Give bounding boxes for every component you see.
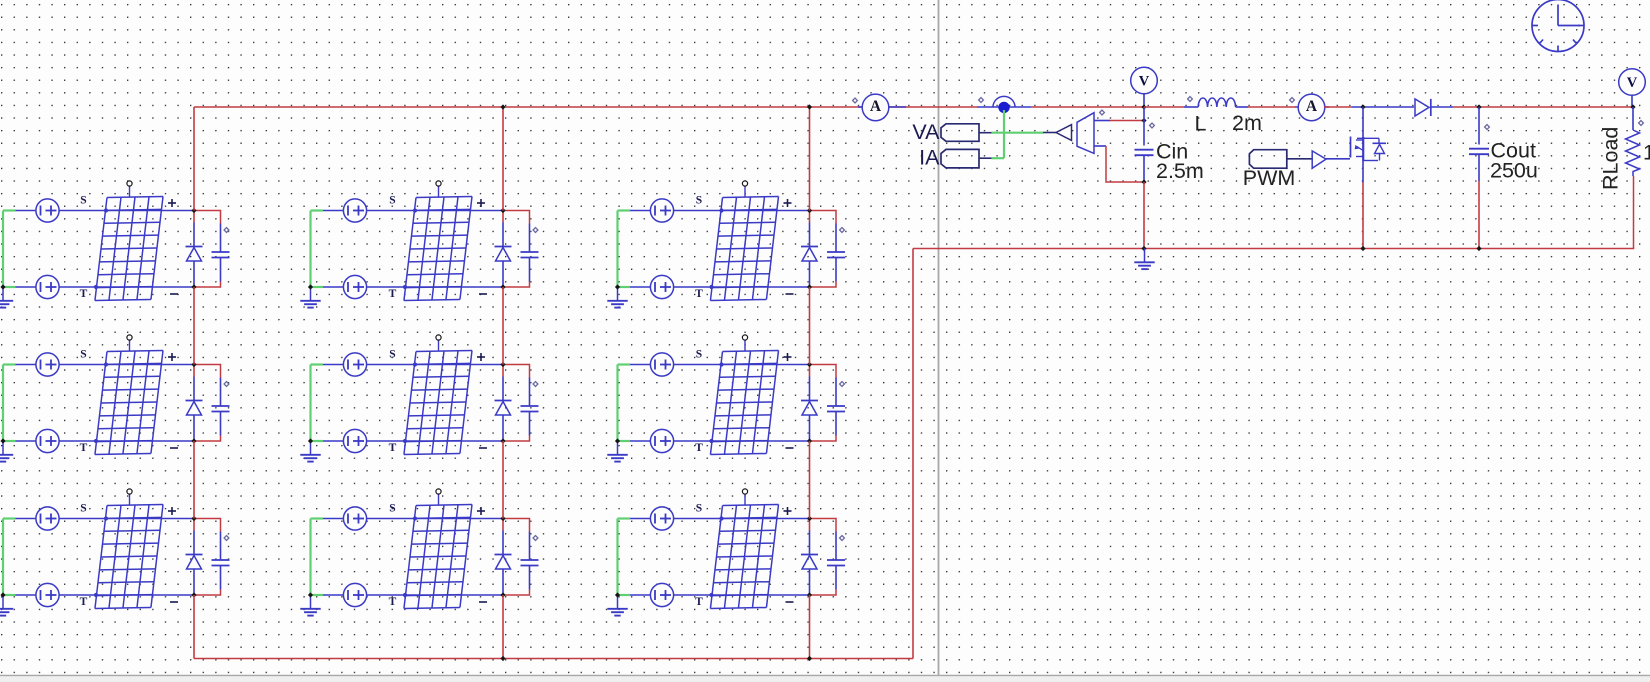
- marker diamond near inductor: [1188, 97, 1193, 102]
- svg-text:IA: IA: [919, 145, 940, 169]
- svg-text:L: L: [1195, 112, 1207, 136]
- wire node to Cin junction: [1031, 106, 1144, 108]
- marker diamond near controller: [1100, 110, 1105, 115]
- wire S input module 11: [16, 210, 195, 212]
- wire T input module 11: [16, 286, 195, 288]
- PV panel module 31: [95, 504, 163, 608]
- svg-text:T: T: [80, 596, 88, 608]
- current source IT module 11: [36, 275, 59, 298]
- label minus module 31: [170, 601, 178, 603]
- junction module 12 plus: [500, 208, 505, 213]
- marker diamond near A1: [853, 98, 858, 103]
- ammeter A1: [858, 94, 906, 121]
- svg-text:T: T: [80, 288, 88, 300]
- wire green left rail module 33: [618, 519, 631, 596]
- marker diamond module 21: [224, 382, 229, 387]
- junction module 33 plus: [807, 516, 812, 521]
- junction module 22 ground: [308, 438, 313, 443]
- marker diamond module 22: [533, 382, 538, 387]
- wire green left rail module 11: [3, 211, 16, 288]
- pin node module 32 T: [403, 593, 407, 597]
- wire bus column 1 segment 4: [193, 595, 195, 659]
- junction top rail column 2: [500, 104, 505, 109]
- terminal node module 21 top: [127, 335, 132, 351]
- current source IS module 11: [36, 199, 59, 222]
- wire RLoad to rail: [1633, 176, 1635, 249]
- svg-text:S: S: [80, 503, 86, 515]
- terminal node module 13 top: [742, 181, 747, 197]
- marker diamond module 13: [840, 228, 845, 233]
- pin node module 23 S: [719, 362, 723, 366]
- svg-text:V: V: [1627, 75, 1638, 91]
- capacitor module 31: [212, 532, 230, 590]
- svg-text:S: S: [696, 503, 702, 515]
- svg-text:T: T: [389, 288, 397, 300]
- label minus module 22: [479, 447, 487, 449]
- wire diode to output node: [1453, 106, 1633, 108]
- junction module 23 minus: [807, 438, 812, 443]
- marker diamond module 31: [224, 536, 229, 541]
- current source IT module 32: [343, 583, 366, 606]
- wire T input module 21: [16, 440, 195, 442]
- wire T input module 32: [323, 594, 503, 596]
- label minus module 32: [479, 601, 487, 603]
- label plus module 32: [477, 507, 485, 515]
- terminal node module 33 top: [742, 489, 747, 505]
- wire MOSFET source to rail: [1362, 183, 1364, 249]
- svg-text:T: T: [695, 288, 703, 300]
- wire S input module 13: [630, 210, 810, 212]
- svg-text:VA: VA: [912, 120, 940, 144]
- wire S input module 21: [16, 364, 195, 366]
- capacitor module 33: [827, 532, 845, 590]
- wire controller bottom pin: [1094, 145, 1106, 147]
- wire T input module 33: [630, 594, 810, 596]
- node dot sense point: [998, 102, 1009, 113]
- resistor RLoad: [1626, 107, 1640, 176]
- wire green left rail module 13: [618, 211, 631, 288]
- ground module 31: [0, 595, 13, 616]
- junction module 13 ground: [615, 284, 620, 289]
- wire red controller return: [1106, 146, 1144, 182]
- wire S input module 33: [630, 518, 810, 520]
- page boundary line: [938, 0, 940, 675]
- diode bypass module 21: [186, 377, 203, 442]
- wire red cap loop module 33 top: [810, 519, 837, 532]
- svg-text:PWM: PWM: [1243, 166, 1296, 190]
- terminal node module 12 top: [436, 181, 441, 197]
- wire A2 to switch node: [1324, 106, 1352, 108]
- svg-text:S: S: [696, 195, 702, 207]
- diode bypass module 31: [186, 531, 203, 596]
- pin node module 33 T: [709, 593, 713, 597]
- wire bus column 2 segment 2: [502, 287, 504, 365]
- diode bypass module 22: [495, 377, 512, 442]
- wire bus column 2 segment 3: [502, 441, 504, 519]
- wire bottom rail PV array: [194, 658, 913, 660]
- PV panel module 32: [404, 504, 472, 608]
- svg-text:A: A: [870, 98, 882, 115]
- pin node module 11 S: [104, 208, 108, 212]
- wire red cap loop module 12 bottom: [503, 282, 530, 288]
- wire red cap loop module 13 bottom: [810, 282, 837, 288]
- current source IS module 33: [650, 507, 673, 530]
- current probe IA: [941, 149, 992, 168]
- pin node module 12 T: [403, 285, 407, 289]
- junction Cin bottom: [1141, 179, 1146, 184]
- label minus module 21: [170, 447, 178, 449]
- PV panel module 11: [95, 196, 163, 300]
- ground module 12: [300, 287, 320, 308]
- svg-text:T: T: [80, 442, 88, 454]
- wire controller top pin: [1094, 120, 1110, 122]
- marker diamond near node: [979, 98, 984, 103]
- wire inductor to ammeter A2: [1248, 106, 1295, 108]
- label plus module 21: [168, 353, 176, 361]
- pin node module 32 S: [413, 516, 417, 520]
- wire bus column 2 segment 1: [502, 107, 504, 211]
- svg-text:V: V: [1139, 74, 1150, 90]
- capacitor module 21: [212, 378, 230, 436]
- junction module 31 ground: [0, 592, 5, 597]
- diode bypass module 32: [495, 531, 512, 596]
- inductor L: [1184, 98, 1248, 107]
- capacitor module 22: [521, 378, 539, 436]
- gate driver triangle: [1312, 151, 1326, 168]
- wire S input module 23: [630, 364, 810, 366]
- wire red cap loop module 22 top: [503, 365, 530, 378]
- pin node module 31 S: [104, 516, 108, 520]
- wire T input module 23: [630, 440, 810, 442]
- ammeter A2: [1295, 94, 1329, 121]
- wire bus red module 11 top stub: [193, 211, 195, 223]
- terminal node module 23 top: [742, 335, 747, 351]
- junction ground rail Cout: [1476, 246, 1481, 251]
- marker diamond near A2: [1290, 98, 1295, 103]
- marker diamond module 33: [840, 536, 845, 541]
- terminal node module 11 top: [127, 181, 132, 197]
- junction module 23 ground: [615, 438, 620, 443]
- svg-text:250u: 250u: [1490, 159, 1538, 183]
- PV panel module 22: [404, 350, 472, 454]
- ground module 22: [300, 441, 320, 462]
- PWM source block: [1249, 150, 1286, 169]
- wire red cap loop module 23 top: [810, 365, 837, 378]
- capacitor module 13: [827, 224, 845, 282]
- wire green left rail module 22: [311, 365, 324, 442]
- current source IS module 32: [343, 507, 366, 530]
- wire S input module 12: [323, 210, 503, 212]
- wire green left rail module 21: [3, 365, 16, 442]
- junction module 23 plus: [807, 362, 812, 367]
- diode D1: [1415, 99, 1453, 116]
- label minus module 12: [479, 293, 487, 295]
- wire red cap loop module 21 top: [194, 365, 221, 378]
- pin node module 31 T: [94, 593, 98, 597]
- junction module 32 ground: [308, 592, 313, 597]
- wire S input module 22: [323, 364, 503, 366]
- wire green sense drop: [1003, 110, 1005, 158]
- svg-text:S: S: [80, 195, 86, 207]
- junction module 33 ground: [615, 592, 620, 597]
- label plus module 12: [477, 199, 485, 207]
- junction ground rail Cin: [1141, 246, 1146, 251]
- marker diamond near Cin: [1150, 123, 1155, 128]
- ground module 32: [300, 595, 320, 616]
- wire red cap loop module 32 top: [503, 519, 530, 532]
- svg-text:S: S: [389, 349, 395, 361]
- PV panel module 33: [710, 504, 778, 608]
- wire green IA link: [992, 157, 1004, 159]
- wire red cap loop module 21 bottom: [194, 436, 221, 442]
- wire red cap loop module 31 top: [194, 519, 221, 532]
- ground module 21: [0, 441, 13, 462]
- junction module 13 minus: [807, 284, 812, 289]
- junction module 32 plus: [500, 516, 505, 521]
- pin node module 13 S: [719, 208, 723, 212]
- wire bus column 3 segment 2: [809, 287, 811, 365]
- pin node module 21 S: [104, 362, 108, 366]
- junction Cin top: [1141, 104, 1146, 109]
- label plus module 33: [784, 507, 792, 515]
- current source IS module 31: [36, 507, 59, 530]
- svg-text:RLoad: RLoad: [1599, 127, 1623, 190]
- junction module 13 plus: [807, 208, 812, 213]
- wire bus red module 12 top stub: [502, 211, 504, 223]
- current source IT module 31: [36, 583, 59, 606]
- pin node module 22 T: [403, 439, 407, 443]
- wire bus column 2 segment 4: [502, 595, 504, 659]
- voltmeter V2: [1619, 69, 1646, 107]
- wire green left rail module 32: [311, 519, 324, 596]
- voltage probe VA: [941, 124, 992, 142]
- svg-text:2.5m: 2.5m: [1156, 159, 1204, 183]
- PV panel module 23: [710, 350, 778, 454]
- marker diamond module 32: [533, 536, 538, 541]
- junction module 12 minus: [500, 284, 505, 289]
- junction module 21 ground: [0, 438, 5, 443]
- ground converter: [1134, 249, 1154, 270]
- wire red cap loop module 32 bottom: [503, 590, 530, 596]
- wire top rail PV array: [194, 106, 862, 108]
- wire bus column 3 segment 1: [809, 107, 811, 211]
- ground module 11: [0, 287, 13, 308]
- marker diamond near Cout: [1485, 125, 1490, 130]
- current source IT module 13: [650, 275, 673, 298]
- label plus module 22: [477, 353, 485, 361]
- svg-text:A: A: [1306, 98, 1318, 115]
- wire red cap loop module 13 top: [810, 211, 837, 224]
- wire bus red module 23 top stub: [809, 365, 811, 377]
- wire Cin to ground rail: [1143, 182, 1145, 249]
- pin node module 23 T: [709, 439, 713, 443]
- marker diamond module 23: [840, 382, 845, 387]
- wire driver to gate: [1326, 158, 1350, 160]
- wire switch node blue: [1352, 106, 1414, 108]
- label minus module 23: [786, 447, 794, 449]
- pin node module 13 T: [709, 285, 713, 289]
- wire bus column 1 segment 3: [193, 441, 195, 519]
- wire bus column 3 segment 3: [809, 441, 811, 519]
- diode bypass module 33: [801, 531, 818, 596]
- current source IS module 12: [343, 199, 366, 222]
- terminal node module 32 top: [436, 489, 441, 505]
- current source IS module 21: [36, 353, 59, 376]
- terminal node module 22 top: [436, 335, 441, 351]
- junction module 11 plus: [191, 208, 196, 213]
- capacitor Cout: [1469, 107, 1489, 181]
- capacitor Cin: [1135, 107, 1154, 182]
- svg-text:T: T: [389, 442, 397, 454]
- pin node module 11 T: [94, 285, 98, 289]
- junction module 32 minus: [500, 592, 505, 597]
- capacitor module 23: [827, 378, 845, 436]
- wire bus red module 21 top stub: [193, 365, 195, 377]
- wire VA signal to gain: [1043, 132, 1056, 134]
- svg-text:1: 1: [1643, 141, 1650, 165]
- current source IS module 23: [650, 353, 673, 376]
- wire T input module 31: [16, 594, 195, 596]
- junction module 11 minus: [191, 284, 196, 289]
- pin node module 12 S: [413, 208, 417, 212]
- controller block trapezoid: [1077, 113, 1094, 154]
- diode bypass module 11: [186, 223, 203, 288]
- current source IT module 21: [36, 429, 59, 452]
- label plus module 13: [784, 199, 792, 207]
- junction top rail column 3: [807, 104, 812, 109]
- diode bypass module 23: [801, 377, 818, 442]
- wire S input module 32: [323, 518, 503, 520]
- junction module 11 ground: [0, 284, 5, 289]
- label minus module 11: [170, 293, 178, 295]
- wire bus red module 13 top stub: [809, 211, 811, 223]
- bottom edge separator: [0, 676, 1650, 682]
- label minus module 13: [786, 293, 794, 295]
- junction output node RLoad: [1630, 104, 1635, 109]
- wire red cap loop module 12 top: [503, 211, 530, 224]
- pin node module 21 T: [94, 439, 98, 443]
- marker diamond module 12: [533, 228, 538, 233]
- ground module 33: [607, 595, 627, 616]
- junction module 31 plus: [191, 516, 196, 521]
- junction module 21 minus: [191, 438, 196, 443]
- wire return riser: [912, 249, 914, 659]
- capacitor module 32: [521, 532, 539, 590]
- marker diamond near RLoad: [1639, 121, 1644, 126]
- PV panel module 13: [710, 196, 778, 300]
- label minus module 33: [786, 601, 794, 603]
- label plus module 11: [168, 199, 176, 207]
- svg-text:S: S: [389, 195, 395, 207]
- wire Cin node to inductor: [1144, 106, 1184, 108]
- capacitor module 12: [521, 224, 539, 282]
- wire S input module 31: [16, 518, 195, 520]
- wire red cap loop module 31 bottom: [194, 590, 221, 596]
- wire bus red module 31 top stub: [193, 519, 195, 531]
- terminal node module 31 top: [127, 489, 132, 505]
- node hop arc: [993, 96, 1015, 107]
- MOSFET Q1: [1351, 107, 1387, 183]
- wire T input module 13: [630, 286, 810, 288]
- wire red controller to Cin node: [1110, 120, 1144, 122]
- current source IT module 12: [343, 275, 366, 298]
- svg-text:T: T: [695, 442, 703, 454]
- wire green left rail module 12: [311, 211, 324, 288]
- svg-text:S: S: [696, 349, 702, 361]
- junction module 31 minus: [191, 592, 196, 597]
- junction module 22 minus: [500, 438, 505, 443]
- wire red cap loop module 11 bottom: [194, 282, 221, 288]
- current source IT module 23: [650, 429, 673, 452]
- wire node hop leads: [977, 106, 1031, 108]
- wire T input module 12: [323, 286, 503, 288]
- current source IS module 22: [343, 353, 366, 376]
- gain block triangle: [1056, 125, 1072, 141]
- marker diamond module 11: [224, 228, 229, 233]
- ground module 13: [607, 287, 627, 308]
- junction module 22 plus: [500, 362, 505, 367]
- wire red cap loop module 11 top: [194, 211, 221, 224]
- wire PWM to driver: [1287, 158, 1313, 160]
- junction bottom rail column 3: [807, 656, 812, 661]
- junction module 21 plus: [191, 362, 196, 367]
- wire bus red module 32 top stub: [502, 519, 504, 531]
- wire green left rail module 23: [618, 365, 631, 442]
- wire bus column 1 segment 2: [193, 287, 195, 365]
- label plus module 23: [784, 353, 792, 361]
- capacitor module 11: [212, 224, 230, 282]
- junction module 12 ground: [308, 284, 313, 289]
- label plus module 31: [168, 507, 176, 515]
- wire converter ground rail: [913, 248, 1634, 250]
- wire bus red module 33 top stub: [809, 519, 811, 531]
- current source IS module 13: [650, 199, 673, 222]
- diode bypass module 13: [801, 223, 818, 288]
- wire red cap loop module 23 bottom: [810, 436, 837, 442]
- wire bus column 1 segment 1: [193, 107, 195, 211]
- simulation clock icon: [1532, 0, 1584, 52]
- diode bypass module 12: [495, 223, 512, 288]
- current source IT module 33: [650, 583, 673, 606]
- svg-text:S: S: [80, 349, 86, 361]
- junction output node Cout: [1476, 104, 1481, 109]
- wire T input module 22: [323, 440, 503, 442]
- svg-text:2m: 2m: [1232, 111, 1262, 135]
- junction module 33 minus: [807, 592, 812, 597]
- wire bus column 3 segment 4: [809, 595, 811, 659]
- current source IT module 22: [343, 429, 366, 452]
- pin node module 33 S: [719, 516, 723, 520]
- PV panel module 21: [95, 350, 163, 454]
- voltmeter V1: [1131, 67, 1158, 107]
- wire Cout to rail: [1478, 181, 1480, 249]
- PV panel module 12: [404, 196, 472, 300]
- wire red cap loop module 22 bottom: [503, 436, 530, 442]
- wire bus red module 22 top stub: [502, 365, 504, 377]
- wire green VA to multiplier: [992, 132, 1043, 134]
- wire array output to ammeter: [887, 106, 978, 108]
- junction controller feed: [1141, 118, 1146, 123]
- svg-text:T: T: [389, 596, 397, 608]
- pin node module 22 S: [413, 362, 417, 366]
- svg-text:T: T: [695, 596, 703, 608]
- junction switch node: [1360, 104, 1365, 109]
- junction ground rail MOSFET: [1360, 246, 1365, 251]
- svg-text:S: S: [389, 503, 395, 515]
- wire red cap loop module 33 bottom: [810, 590, 837, 596]
- ground module 23: [607, 441, 627, 462]
- wire green left rail module 31: [3, 519, 16, 596]
